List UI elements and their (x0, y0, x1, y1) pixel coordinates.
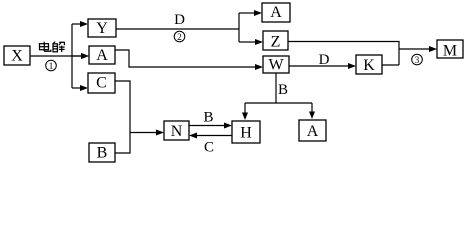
label circled 2 (174, 31, 185, 42)
svg-text:1: 1 (49, 61, 54, 71)
wire down arrow to A bottom (309, 103, 315, 119)
wire junction to M (399, 46, 437, 52)
label B below W (278, 82, 288, 98)
label circled 3 (412, 54, 423, 65)
box C (88, 73, 115, 93)
wire junction to N (130, 130, 164, 136)
svg-text:B: B (97, 145, 108, 162)
box A left (89, 46, 115, 64)
label B between N and H (203, 110, 213, 126)
label D upper (174, 12, 185, 28)
wire branch to C (72, 85, 88, 91)
svg-text:C: C (96, 75, 107, 92)
svg-text:D: D (174, 12, 185, 28)
wire A left to W (115, 50, 263, 70)
svg-text:Z: Z (271, 34, 281, 51)
box A top right (262, 3, 290, 22)
svg-text:3: 3 (415, 55, 420, 65)
box Z (263, 31, 288, 51)
wire X to A (electrolysis arrow) (30, 53, 89, 59)
svg-text:D: D (319, 52, 330, 68)
svg-text:N: N (171, 123, 183, 140)
box M (437, 40, 463, 60)
wire branch vertical from X line (71, 24, 73, 88)
svg-text:A: A (307, 123, 319, 140)
wire W down with label B (275, 73, 277, 103)
svg-text:2: 2 (177, 32, 182, 42)
wire C down to N and B junction (115, 81, 130, 153)
svg-text:B: B (278, 82, 288, 98)
box K (356, 55, 382, 74)
svg-text:Y: Y (96, 20, 108, 37)
label C between N and H (204, 140, 214, 156)
svg-text:K: K (363, 57, 375, 74)
box W (263, 56, 289, 74)
wire N to H with label B (189, 123, 232, 129)
svg-text:H: H (240, 125, 252, 142)
wire down arrow to H (242, 103, 248, 120)
label D lower (319, 52, 330, 68)
wire K to M junction (382, 64, 399, 66)
wire branch to Y (72, 21, 88, 27)
wire split to Z (239, 39, 263, 45)
box A bottom (299, 120, 326, 141)
wire split bar above H and A (245, 102, 312, 104)
svg-text:W: W (268, 57, 284, 74)
box Y (88, 19, 116, 37)
wire branch to A left (81, 53, 89, 59)
label 电解 (hand-drawn glyphs) (40, 42, 65, 52)
svg-text:A: A (96, 47, 108, 64)
svg-text:A: A (270, 4, 282, 21)
box B (89, 143, 115, 162)
box H (232, 121, 260, 143)
svg-text:X: X (11, 48, 23, 65)
box X (4, 46, 30, 65)
wire Z to M junction (288, 42, 399, 66)
box N (164, 121, 189, 140)
wire H to N with label C (189, 133, 232, 139)
svg-text:C: C (204, 140, 214, 156)
wire Y to split (116, 13, 239, 42)
svg-text:M: M (443, 43, 457, 60)
wire W to K with label D (289, 63, 356, 69)
svg-text:B: B (203, 110, 213, 126)
label circled 1 (46, 60, 57, 71)
wire split to A top right (239, 10, 262, 16)
